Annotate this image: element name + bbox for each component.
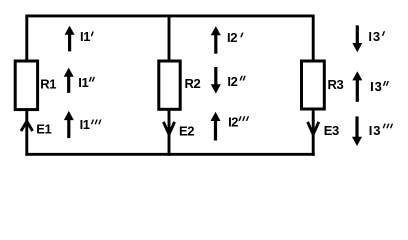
current arrow I2' (up) (211, 26, 244, 54)
svg-text:I3: I3 (370, 79, 383, 94)
svg-text:E1: E1 (36, 121, 51, 136)
svg-text:I1: I1 (80, 29, 90, 44)
current arrow I2'' (down) (211, 67, 246, 94)
svg-text:R3: R3 (328, 77, 344, 92)
resistor R1 (15, 61, 56, 110)
resistor R3 (302, 61, 344, 109)
svg-text:I1: I1 (80, 117, 90, 132)
svg-text:I3: I3 (368, 29, 381, 44)
current arrow I1''' (up) (64, 111, 102, 138)
current arrow I3' (down) (352, 25, 385, 52)
current arrow I2''' (up) (211, 112, 250, 141)
wire: top bus (25, 14, 314, 17)
wire: right branch (312, 15, 315, 156)
svg-text:E2: E2 (179, 124, 194, 139)
resistor R2 (159, 61, 201, 109)
wire: left branch (25, 15, 28, 156)
emf E2 (arrowhead down on middle branch) (163, 122, 194, 139)
current arrow I1'' (up) (64, 68, 95, 93)
wire: bottom bus (25, 153, 314, 156)
current arrow I3'' (up) (352, 71, 389, 102)
svg-text:E3: E3 (324, 123, 339, 138)
svg-text:R2: R2 (185, 76, 201, 91)
emf E3 (arrowhead down on right branch) (308, 122, 339, 138)
current arrow I1' (up) (65, 26, 94, 52)
svg-text:I3: I3 (369, 123, 382, 138)
svg-text:I2: I2 (227, 30, 237, 45)
wire: middle branch (168, 15, 171, 156)
svg-text:I1: I1 (78, 75, 88, 90)
svg-text:I2: I2 (228, 115, 238, 130)
svg-text:I2: I2 (227, 74, 237, 89)
svg-text:R1: R1 (40, 77, 56, 92)
current arrow I3''' (down) (352, 116, 393, 146)
emf E1 (arrowhead up on left branch) (21, 121, 51, 136)
